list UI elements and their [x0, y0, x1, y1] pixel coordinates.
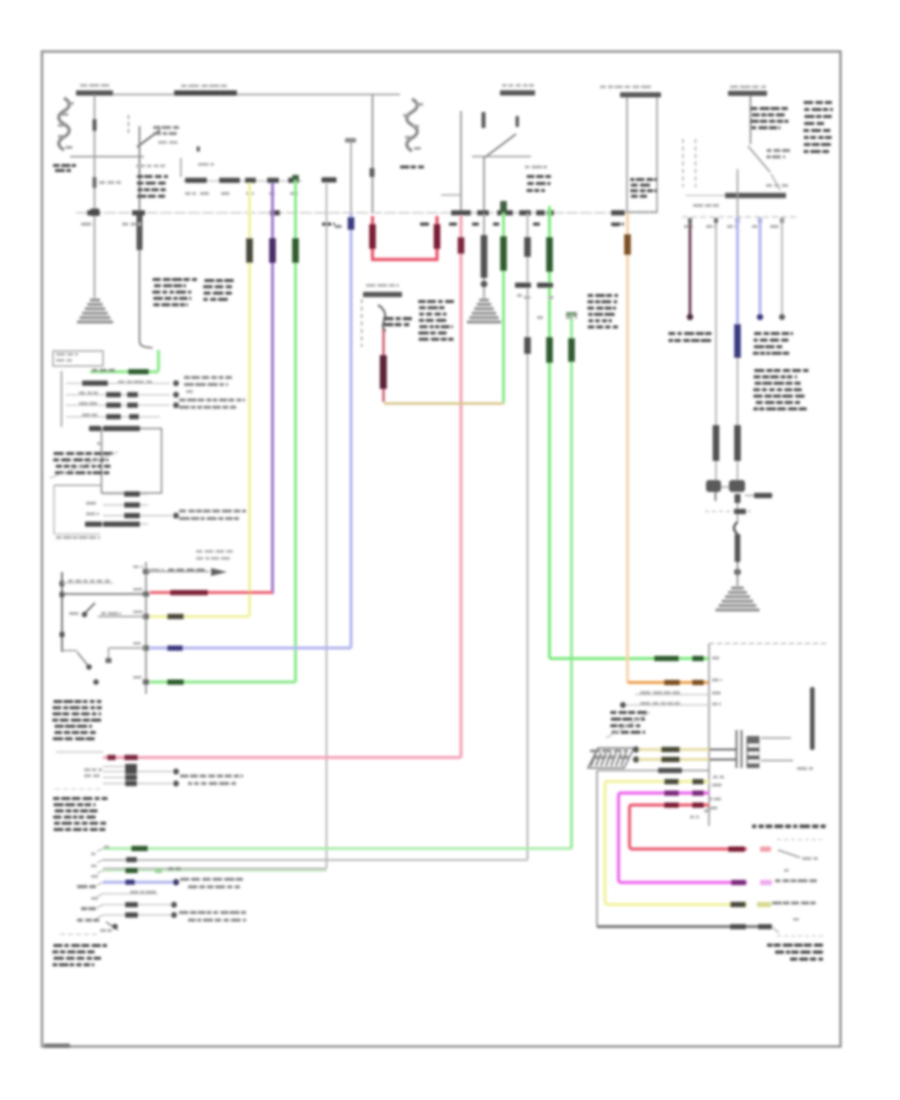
wire: maroon fuse lead	[380, 328, 387, 402]
box: DRL resistor	[89, 426, 162, 493]
ground: left chassis ground	[77, 300, 113, 322]
fuse AM2 label	[76, 84, 113, 96]
fuse label TAIL	[500, 84, 535, 127]
wire: blue x760	[757, 217, 763, 320]
label 1J 2	[136, 165, 165, 168]
dark bar component	[810, 687, 815, 750]
text block: junction note top-left two-column	[152, 278, 233, 306]
wire: yellow loop	[605, 779, 816, 907]
light line y752	[56, 751, 103, 753]
small label right	[797, 767, 813, 770]
wire: green2 x549.5	[546, 206, 709, 661]
note text with diagonal	[50, 452, 118, 478]
ground: center ground	[467, 300, 501, 322]
connector column x146	[143, 562, 149, 694]
connector bus right (2E)	[682, 217, 797, 228]
wire: blue x351	[150, 213, 354, 651]
relay box rectangle	[600, 86, 661, 213]
row y705	[620, 702, 709, 708]
connector bus 2A (upper)	[183, 178, 302, 183]
fusible link column (battery feed)	[53, 98, 76, 172]
junction block bus (main)	[76, 210, 657, 215]
fuse: DRL fuse	[362, 284, 412, 347]
junction connector parallelogram	[588, 748, 634, 768]
page number label bottom-left	[44, 1044, 70, 1049]
box: combination meter	[709, 644, 827, 827]
elbow lines below	[54, 485, 102, 539]
switch position labels	[77, 853, 99, 922]
wire: blue x737.5 to ground	[729, 169, 745, 586]
wire: magenta loop	[619, 791, 817, 886]
text block: control ecu note	[753, 369, 808, 410]
wire: orange x627.5	[612, 213, 709, 685]
bracket left vertical	[61, 371, 63, 427]
connector row I	[86, 510, 246, 521]
row7	[103, 911, 246, 922]
wire: green1 to dimmer	[150, 175, 299, 685]
wire: yellow headlight LH-low	[150, 183, 253, 619]
text block: DRL relay main	[418, 300, 454, 341]
connector row H	[86, 502, 148, 508]
text column: right margin note	[803, 101, 833, 153]
label 2B	[525, 166, 551, 193]
khaki row 1	[633, 746, 736, 752]
wire: red dimmer feed	[150, 590, 273, 595]
text right of rows	[180, 775, 243, 786]
connector row G	[103, 491, 148, 496]
wire: gray x326 tail line	[103, 177, 337, 868]
gray dashes after rows	[784, 869, 799, 921]
connector row J	[85, 522, 148, 527]
main power bus	[76, 94, 400, 96]
text block: relay name	[137, 175, 168, 198]
wire: purple headlight RH-low	[269, 183, 276, 594]
pin texts on box edge	[690, 657, 724, 819]
label W-B	[99, 181, 121, 184]
connector dashes 1J	[128, 115, 130, 134]
wire: tan jumper	[384, 402, 504, 405]
wire: gray long x527.5	[103, 213, 531, 860]
row: to flasher arrow	[146, 550, 233, 576]
connector bars + box	[737, 730, 794, 768]
rows y766-789	[55, 764, 179, 789]
connector dashes pair	[683, 139, 696, 187]
text: headlight system note	[668, 332, 711, 342]
pin labels under main bus	[81, 223, 624, 226]
text block: junction note	[587, 294, 618, 329]
relay: headlamp relay	[728, 86, 790, 191]
wire: vertical from bus x94.5	[91, 95, 100, 299]
wire: green4 x503.5 to DRL fuse	[500, 201, 507, 404]
wire: red U-loop	[369, 216, 440, 260]
row6	[103, 902, 177, 908]
row5	[103, 891, 158, 894]
component: transistor pair link	[705, 487, 773, 514]
text block: power source note	[53, 797, 108, 831]
wire: gray to mid ground	[481, 213, 488, 298]
relay: ignition relay contact	[137, 126, 179, 147]
wire: red loop	[630, 803, 818, 861]
relay: taillight relay contact	[472, 112, 531, 213]
connector row B	[66, 376, 232, 386]
text block bottom right	[767, 944, 823, 961]
wire: fuse lead x181	[181, 146, 214, 177]
box: relay (main) small	[53, 351, 103, 366]
pin numbers under connector 2A	[185, 192, 298, 195]
gray row y770.5	[597, 768, 709, 773]
wire: vertical x461 taillight feed	[441, 111, 461, 213]
note block hatched	[606, 711, 650, 738]
fuse HEAD MAIN label	[174, 85, 237, 96]
wire: vertical x139.5 to DRL relay	[137, 126, 143, 341]
row3 green/gray	[103, 867, 327, 873]
ground: right ground (large)	[716, 588, 760, 610]
wire: horizontal link y156.6	[70, 156, 144, 158]
khaki row 2	[633, 756, 736, 762]
pin numbers at dimmer connector	[133, 566, 143, 679]
COMBINATION METER label	[752, 825, 826, 829]
row4 blue	[103, 878, 243, 889]
elbow: x139.5 into green	[90, 341, 159, 374]
thick gray row y926.6	[597, 924, 779, 933]
connector row D	[66, 399, 245, 409]
bracket diagonals	[97, 849, 103, 919]
text block: dimmer switch name	[52, 700, 102, 740]
junction bar right	[686, 184, 788, 198]
wire: maroon x690	[687, 223, 693, 320]
OFF arm	[60, 922, 118, 934]
connector bus (lower 2B)	[515, 283, 577, 319]
wire: vertical x351	[345, 138, 356, 213]
switch: dimmer body	[60, 572, 147, 685]
wire: vertical x597	[596, 771, 598, 928]
connector row C	[66, 390, 193, 398]
wire: gray x716	[706, 223, 721, 501]
text: DRL system note	[753, 332, 793, 355]
wire: green3 x571.5	[103, 312, 577, 851]
row2 label	[126, 857, 137, 862]
battery column	[400, 99, 424, 169]
connector row E	[66, 414, 160, 420]
dashed separators right	[777, 840, 823, 937]
wire: vertical x372.5 bus to junction	[370, 95, 375, 214]
label under junction	[693, 204, 719, 207]
wire: gray x782	[779, 217, 785, 320]
wire: pink x461	[103, 216, 464, 760]
row y694.5	[635, 691, 709, 694]
text block: bottom-left note	[52, 944, 107, 966]
